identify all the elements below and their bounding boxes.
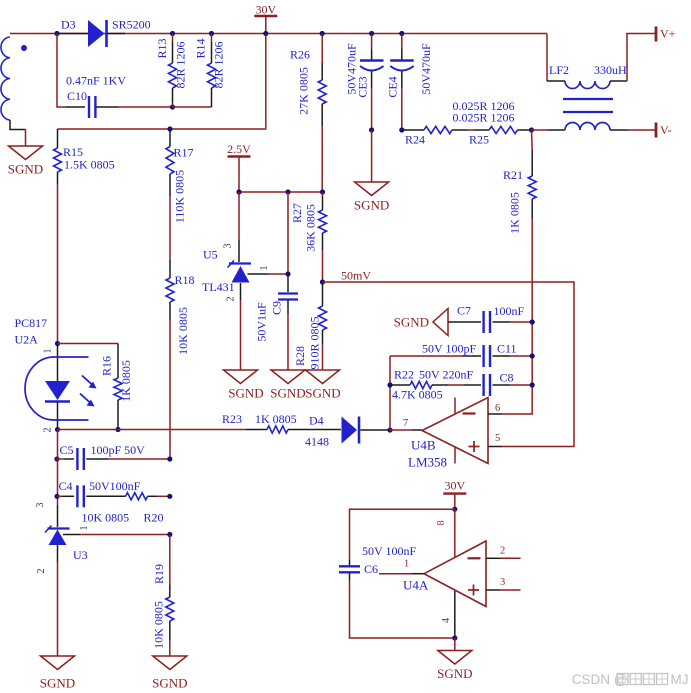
svg-text:MJ: MJ [671,672,689,687]
svg-text:50V 100pF: 50V 100pF [422,341,476,355]
svg-text:C10: C10 [67,89,87,103]
svg-text:50V100nF: 50V100nF [89,479,141,493]
resistor R17 110K 0805 [169,129,171,147]
ground SGND (U4A) [438,651,472,665]
svg-text:SGND: SGND [270,386,305,401]
svg-text:V-: V- [660,123,672,137]
node C11 right [530,353,535,358]
resistor R19 10K 0805 [169,535,171,586]
node R26 top [320,31,325,36]
diode D3 SR5200 [57,33,88,35]
ground SGND (C9) [271,370,305,384]
svg-text:LM358: LM358 [408,455,447,470]
svg-text:1K 0805: 1K 0805 [119,360,133,402]
svg-text:1: 1 [43,349,54,354]
wire U4B pin5 stub [488,446,502,448]
svg-text:V+: V+ [660,27,676,41]
node 30V rail [263,31,268,36]
node R17 top [167,126,172,131]
svg-text:SGND: SGND [354,198,389,213]
svg-text:82R 1206: 82R 1206 [173,41,187,88]
capacitor CE4 50V470uF [401,34,403,50]
svg-text:R19: R19 [152,564,166,584]
wire U4A pin4 [454,591,456,638]
wire 30V top rail [10,33,547,35]
wire 2.5V row [239,191,323,193]
svg-text:330uH: 330uH [594,63,627,77]
svg-text:100pF 50V: 100pF 50V [91,443,146,457]
svg-text:R20: R20 [144,511,164,525]
svg-text:100nF: 100nF [494,304,525,318]
capacitor C6 50V 100nF [349,560,351,566]
svg-text:SGND: SGND [152,676,187,691]
svg-text:2: 2 [43,428,54,433]
svg-text:2: 2 [500,546,505,557]
U2A package lines [54,356,89,358]
capacitor C4 50V100nF [57,495,62,497]
shunt regulator U3 TL431 [57,505,59,527]
svg-text:R16: R16 [99,356,113,376]
node CE4 bottom [399,127,404,132]
capacitor C10 0.47nF 1KV [88,96,90,118]
svg-text:2: 2 [36,569,47,574]
resistor R28 910R 0805 [322,282,324,306]
node U4A supply [452,507,457,512]
svg-text:R21: R21 [503,168,523,182]
wire U4A pin2 stub [486,557,500,559]
svg-text:C8: C8 [500,371,514,385]
node C8 right [530,382,535,387]
svg-text:C7: C7 [457,304,471,318]
svg-text:7: 7 [403,418,408,429]
wire 30V to lower rail [58,34,266,130]
wire LF2 to V+ [627,34,655,82]
op-amp U4A LM358 [424,541,486,607]
wire U5 pin1 [248,273,269,275]
svg-text:SGND: SGND [394,315,429,330]
port V+ [655,27,658,42]
wire U5 pin2 to ground [240,283,242,300]
U2A led [57,345,59,381]
node U5 pin1 / C9 [285,271,290,276]
node R14 top [209,31,214,36]
wire winding bottom to ground [10,120,26,130]
resistor R13 82R 1206 [172,34,174,43]
wire pin2 down chain [57,430,59,506]
node R25 / LF2 / R21 [529,127,534,132]
node C5 left [54,456,59,461]
wire feedback riser [389,356,391,430]
svg-text:SGND: SGND [228,386,263,401]
LF2 core [563,98,613,100]
svg-text:R28: R28 [293,346,307,366]
svg-text:SGND: SGND [437,666,472,681]
svg-text:R17: R17 [174,146,194,160]
node C5 right [167,456,172,461]
node U4B pin7 [387,427,392,432]
U2A light arrows [80,376,93,404]
svg-text:4: 4 [441,617,452,623]
wire pin7 to opamp [390,429,412,431]
svg-text:R13: R13 [155,38,169,58]
svg-text:10K 0805: 10K 0805 [151,601,165,649]
svg-text:R27: R27 [290,203,304,223]
svg-text:10K 0805: 10K 0805 [82,511,130,525]
svg-text:8: 8 [436,520,447,525]
svg-text:U4A: U4A [403,578,429,593]
svg-text:1.5K 0805: 1.5K 0805 [64,158,115,172]
svg-text:30V: 30V [255,3,276,17]
resistor R26 27K 0805 [321,34,323,64]
wire U3 pin2 to ground [57,545,59,562]
capacitor CE3 50V470uF [371,34,373,50]
inductor LF2 (bottom winding) [532,129,549,131]
ground SGND (U3) [41,656,75,670]
wire U4A pin3 stub [486,589,500,591]
svg-text:CE4: CE4 [385,76,399,97]
ground SGND (transformer) [9,146,43,160]
svg-text:R18: R18 [175,273,195,287]
node 50mV [320,279,325,284]
svg-text:10K 0805: 10K 0805 [176,307,190,355]
svg-text:SGND: SGND [305,386,340,401]
wire LF2 to V- [628,129,655,131]
node CE3 bottom [369,127,374,132]
power 30V (U4A) [443,492,466,494]
svg-text:82R 1206: 82R 1206 [211,41,225,88]
capacitor C8 50V 220nF [464,384,481,386]
wire rail to LF2 [546,34,548,82]
svg-text:36K 0805: 36K 0805 [303,204,317,252]
svg-text:SGND: SGND [40,676,75,691]
ground SGND (CE3) [355,182,389,196]
svg-text:R14: R14 [193,38,207,58]
node R26/R27 [320,189,325,194]
wire CE3 to ground [371,130,373,182]
svg-text:0.025R 1206: 0.025R 1206 [453,111,515,125]
svg-text:50V470uF: 50V470uF [419,43,433,95]
svg-text:R25: R25 [469,133,489,147]
svg-text:C4: C4 [59,479,73,493]
svg-text:PC817: PC817 [15,316,48,330]
shunt regulator U5 TL431 [238,192,240,240]
svg-text:5: 5 [495,433,500,444]
svg-text:50V1uF: 50V1uF [254,302,268,342]
node R13 top [170,31,175,36]
capacitor C11 50V 100pF [390,355,462,357]
svg-text:1: 1 [79,526,90,531]
wire U4A pin8 [454,509,456,557]
svg-text:C9: C9 [269,301,283,315]
power 30V (top) [254,15,277,17]
node at D3 anode [54,31,59,36]
svg-text:R26: R26 [290,48,310,62]
node 2.5V / U5 pin3 [236,189,241,194]
capacitor C5 100pF 50V [57,458,64,460]
svg-text:SGND: SGND [8,162,43,177]
svg-text:U5: U5 [203,248,218,262]
svg-text:C6: C6 [364,562,378,576]
op-amp U4B LM358 [422,398,488,464]
svg-text:0.47nF 1KV: 0.47nF 1KV [66,74,126,88]
power 2.5V [228,155,251,157]
ground SGND (left pointing) [433,309,448,336]
wire opto output row [58,429,247,431]
wire U4A pin1 [379,573,412,575]
resistor R15 1.5K 0805 [57,129,59,148]
svg-text:SR5200: SR5200 [112,18,151,32]
svg-text:R24: R24 [405,133,425,147]
svg-text:1K 0805: 1K 0805 [255,412,297,426]
wire U4B pin6 [488,413,502,415]
svg-text:1: 1 [404,559,409,570]
diode D4 4148 [342,417,358,444]
transformer winding T1 secondary [1,37,10,120]
resistor R27 36K 0805 [322,192,324,196]
svg-text:R22: R22 [394,368,414,382]
resistor R18 10K 0805 [169,260,171,278]
svg-text:30V: 30V [444,479,465,493]
svg-text:C5: C5 [60,443,74,457]
svg-text:U4B: U4B [411,438,436,453]
svg-text:110K 0805: 110K 0805 [172,170,186,223]
svg-text:1: 1 [259,266,270,271]
capacitor C7 100nF [448,321,481,323]
svg-text:50V470uF: 50V470uF [344,43,358,95]
resistor R21 1K 0805 [531,130,534,150]
svg-text:1K 0805: 1K 0805 [507,192,521,234]
node U2A pin1 [55,341,60,346]
node R13 bottom [170,104,175,109]
resistor R14 82R 1206 [211,34,213,43]
wire to SGND (U4A) [454,638,456,651]
node C4 right [167,494,172,499]
svg-text:D4: D4 [309,414,324,428]
svg-text:C11: C11 [497,341,517,355]
svg-text:910R 0805: 910R 0805 [307,316,321,369]
svg-text:U3: U3 [73,548,88,562]
svg-text:2: 2 [226,297,237,302]
svg-text:3: 3 [223,244,234,249]
node C7 right [530,319,535,324]
node riser top [285,189,290,194]
resistor R20 10K 0805 [126,493,148,500]
svg-text:50V 100nF: 50V 100nF [362,544,416,558]
node U4A ground [452,635,457,640]
ground SGND (R19) [153,656,187,670]
svg-text:27K 0805: 27K 0805 [296,67,310,115]
svg-text:D3: D3 [61,18,76,32]
wire riser 2.5V to pin1 row [287,192,289,274]
node U3 pin1 / R19 [167,532,172,537]
node CE3 top [369,31,374,36]
node R16 bottom [115,427,120,432]
svg-text:4.7K 0805: 4.7K 0805 [392,388,443,402]
svg-text:2.5V: 2.5V [227,142,251,156]
svg-text:LF2: LF2 [549,63,569,77]
resistor R22 4.7K 0805 [390,384,410,386]
capacitor C9 50V1uF [287,274,289,292]
wire C10 branch [57,34,66,108]
ground SGND (U5) [224,370,258,384]
svg-text:3: 3 [35,503,46,508]
wire C6 loop [350,509,455,560]
svg-text:U2A: U2A [15,333,39,347]
wire net 50mV [323,282,575,447]
wire U3 pin1 [63,534,80,536]
svg-text:3: 3 [500,577,505,588]
svg-text:4148: 4148 [305,435,329,449]
node C4 left [54,494,59,499]
ground SGND (R28) [306,370,340,384]
svg-text:6: 6 [495,403,500,414]
resistor R16 1K 0805 [58,343,119,345]
node U2A pin2 [55,427,60,432]
svg-text:R23: R23 [222,412,242,426]
node CE4 top [399,31,404,36]
resistor R24 0.025R 1206 [402,129,424,131]
inductor LF2 330uH (top winding) [547,80,565,82]
svg-text:50mV: 50mV [341,269,371,283]
svg-text:50V 220nF: 50V 220nF [419,368,473,382]
port V- [655,123,658,138]
resistor R25 0.025R 1206 [468,129,474,131]
node R22 left [387,382,392,387]
resistor R23 1K 0805 [246,429,267,431]
wire R21 to pin 6 [502,219,532,414]
svg-text:TL431: TL431 [202,280,235,294]
